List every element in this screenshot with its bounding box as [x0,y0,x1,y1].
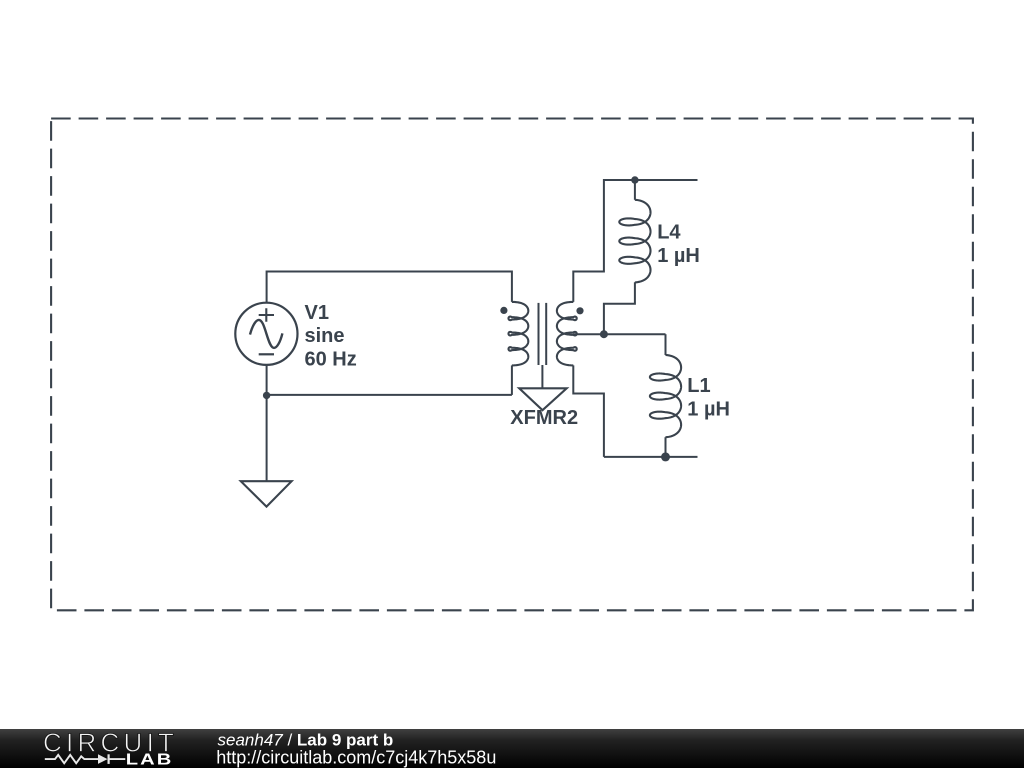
svg-text:LAB: LAB [126,751,174,768]
svg-text:1 µH: 1 µH [687,398,730,420]
svg-text:1 µH: 1 µH [657,245,700,267]
svg-text:L1: L1 [687,375,710,397]
svg-text:XFMR2: XFMR2 [510,407,578,429]
svg-text:L4: L4 [657,222,681,244]
svg-text:V1: V1 [305,302,329,324]
svg-text:60 Hz: 60 Hz [305,349,357,371]
svg-text:sine: sine [305,325,345,347]
svg-text:http://circuitlab.com/c7cj4k7h: http://circuitlab.com/c7cj4k7h5x58u [216,748,496,768]
